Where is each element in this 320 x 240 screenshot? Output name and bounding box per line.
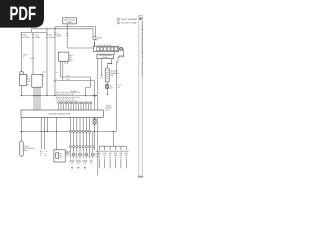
wire: X3 column to bottom label [94,132,96,151]
label: lamp L2 name [76,159,82,166]
label: hood switch [124,150,130,159]
svg-text:A 12: A 12 [100,76,103,79]
label: door switch FR [102,150,108,159]
wire: C2 pin 4 to junction block [39,87,40,110]
wire: feed branch at y26.6 to fusible link column [55,27,95,37]
wire: bus stub at x31.5 [31,29,33,33]
lamp L3 luggage compartment light [85,153,88,158]
wire: long relay pin down to bottom label [97,59,99,176]
wire: bus stub at x47 [46,29,48,33]
wire: mid bus [21,95,98,97]
wire: relay pin to unlock warning switch with arrow [107,59,112,68]
svg-text:LT: LT [71,162,73,165]
junction connector block J1 [21,110,103,117]
wire: feed from cross rail to door switch bus [113,131,114,146]
wire: L-W bend down to mid bus [85,77,90,96]
node: mid bus / F3 column [46,95,47,96]
svg-text:SYSTEM WIRING DIAGRAMS TOYOTA: SYSTEM WIRING DIAGRAMS TOYOTA CELICA 4 [141,21,144,78]
fusible link F6 1.25B FL [93,29,102,46]
connector X3 inline on L-R column [93,118,96,126]
power source label box HOT AT ALL TIMES [63,18,77,24]
svg-text:DOME: DOME [35,36,41,39]
wire: relay row to label box stub [114,52,116,55]
wire: door switch bus [99,145,126,147]
label: wire color W-R pin 2 [23,53,27,58]
wire: lower bus [21,32,48,34]
lamp L1 front dome light [72,153,75,158]
PDF badge [0,0,44,28]
label: lamp L3 name [82,159,88,166]
label: wire colors above mid bus [56,91,80,96]
svg-text:LT: LT [77,162,79,165]
svg-text:THEFT WARNING: THEFT WARNING [121,18,138,21]
node: junction upper bus / x47 [46,28,47,29]
wire: relay pin off-page arrow A12 [100,59,103,80]
legend item 2: security lamp [117,22,137,25]
ignition switch box S2 [58,52,73,63]
wire: L-R run to bend [57,80,95,82]
svg-text:STOP: STOP [56,35,62,38]
label: wire B-Y pin 12 A [40,150,44,157]
legend item 1: theft warning light [117,18,138,21]
label: wire L-R pin 4 B [45,150,49,157]
ground mark G2 [78,167,79,168]
svg-text:LT: LT [90,162,92,165]
wire: C1 to mid bus [21,86,23,96]
wire: switch S1 off-page arrow [107,89,109,96]
theft deterrent ECU capsule connector [20,141,35,156]
fuse F3 10A GAUGE with drop wire to mid bus [46,33,56,96]
label: door switch FL [97,150,103,159]
wire: S2 pin IG2 stub [64,61,66,64]
wire: upper bus B+ [32,28,94,30]
connector X2 below switch S1 [105,82,113,90]
integration relay U1 pin header row [93,46,118,51]
wire: junction block pin to cross rail [47,117,48,132]
svg-text:FL: FL [97,39,99,42]
node: mid bus / F4 column [54,95,55,96]
wire: relay output step-down to right rail [116,49,123,132]
svg-text:22: 22 [118,86,120,89]
wire: junction block pin to key switch box [56,117,57,150]
terminal pins into junction block top [58,102,92,110]
svg-text:SW: SW [66,154,69,157]
lamp L4 ignition key light [91,153,94,158]
node: mid bus end arrows [93,95,97,97]
svg-text:TIMES: TIMES [67,21,74,24]
wire: C2 pin 2 to junction block [35,87,36,110]
svg-text:SECURITY LAMP: SECURITY LAMP [121,22,138,25]
wire: door switch drop 1 [98,146,100,168]
wire: door switch drop 6 [125,146,127,168]
wire: junction block pin B-Y [41,117,42,149]
wire: junction block pin to theft deterrent ECU capsule [21,117,22,141]
node: mid bus / F1 column [21,95,22,96]
svg-text:4 6 2 9 1 3 8 5 12 7 11: 4 6 2 9 1 3 8 5 12 7 11 [56,93,73,96]
svg-text:JUNCTION CONNECTOR: JUNCTION CONNECTOR [48,113,71,116]
switch S1 unlock warning switch [105,68,119,82]
wire: S2 pin ST1 stub [66,61,68,64]
svg-text:LT: LT [84,162,86,165]
svg-text:6: 6 [119,56,120,59]
connector bracket pin 8 on L-R wire [53,79,56,82]
label: theft deterrent ECU note [106,105,113,112]
wire: X3 down to cross rail [94,124,95,132]
wire: from fuse F5 to relay block [67,47,93,49]
wire: L-R bend down to connector X3 [94,81,96,119]
wire: door switch drop 2 [104,146,106,168]
connector C2 box [32,74,42,87]
ground mark G1 [71,167,72,168]
svg-text:PDF: PDF [10,3,37,25]
svg-text:2: 2 [23,56,24,59]
label: lamp L4 name [90,159,94,166]
lamp column wires with inline connectors [69,117,93,158]
fuse F2 7.5A DOME with drop wire to connector C2 [32,33,41,75]
wire: C2 pin 1 to junction block [33,87,34,110]
svg-text:ST1: ST1 [69,60,72,63]
label: luggage switch [118,150,124,159]
wire: S2 pin IG1 down [62,61,64,80]
label: IG SW [119,54,124,59]
integration relay U1 label box [97,54,114,59]
connector C1 with tab [20,72,32,86]
wire: C2 pin 3 to junction block [37,87,38,110]
fuse F4 15A STOP with drop wire to mid bus [54,27,62,96]
label: lamp L1 name [69,159,75,166]
ground mark G3 [84,167,85,168]
svg-text:ECU-B: ECU-B [23,36,30,39]
wire: door switch drop 5 [120,146,122,168]
svg-text:1 B 2 A 3 C 4 E 5 D: 1 B 2 A 3 C 4 E 5 D [97,44,112,47]
label: long pin column P7 B-W G-B [96,150,100,157]
wire: L-W run to bend [61,76,91,78]
label: door switch RR [113,150,119,159]
wire: horizontal cross rail y131.5 [20,131,117,133]
fuse F5 on header drop wire [66,24,68,48]
wire: junction block pin L-R [44,117,45,149]
label: door switch RL [107,150,113,159]
svg-text:L-W: L-W [66,74,70,77]
svg-text:R-W: R-W [31,57,35,60]
svg-text:SW: SW [110,74,113,77]
connector X1 on relay output [119,47,123,50]
right sidebar caption strip [138,15,144,177]
wire: S2 pin ACC down [60,61,62,77]
wire: key switch to lamp column [65,152,70,154]
lamp L2 rear dome light [79,153,82,158]
wire: door switch drop 3 [109,146,111,168]
label: wire B-W pin 22 [118,84,122,89]
key switch box S3 [54,150,71,162]
label: wire W-B pin 5 IG [42,70,46,77]
wire: door switch drop 4 [115,146,117,168]
fuse F1 15A ECU-B with drop wire to connector C1 [21,33,30,73]
svg-text:RELAY: RELAY [102,56,109,59]
svg-text:8: 8 [53,79,54,82]
label: wire colors below mid bus [56,96,80,101]
